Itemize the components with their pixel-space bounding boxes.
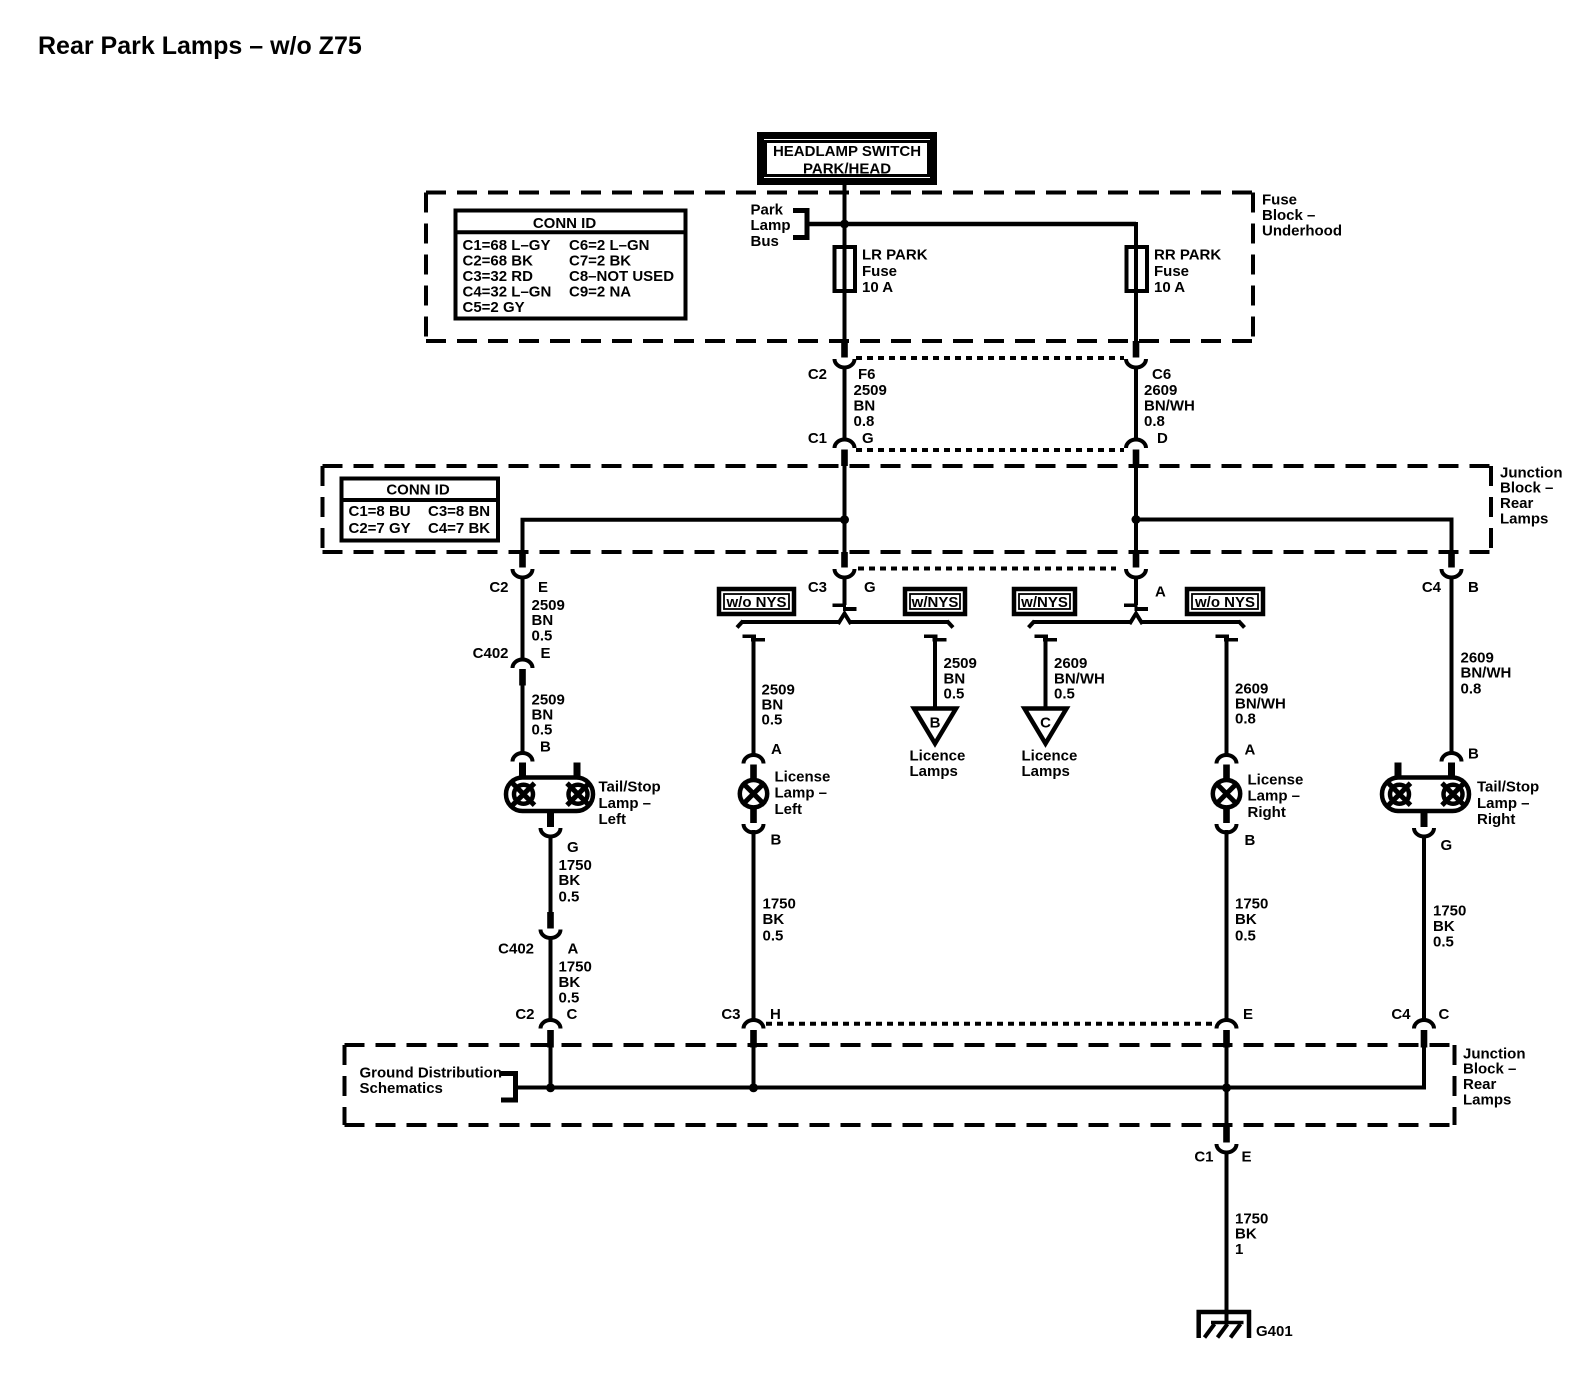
label Licence Lamps B [910,748,966,781]
node park lamp bus junction [840,220,849,229]
svg-text:Right: Right [1477,811,1515,828]
svg-text:10 A: 10 A [862,279,893,296]
connector C3 pin H ground block [744,1020,764,1048]
svg-text:1750: 1750 [1433,903,1466,920]
node ground bus center [749,1083,758,1092]
svg-text:Lamp –: Lamp – [1248,788,1301,805]
svg-text:BN/WH: BN/WH [1461,664,1512,681]
svg-text:RR PARK: RR PARK [1154,247,1221,264]
svg-text:C2: C2 [808,366,827,383]
wire label 2509 BN 0.5 tail left upper [532,597,565,644]
svg-text:0.5: 0.5 [559,990,580,1007]
wire 1750 BK 0.5 tail left upper [549,835,553,913]
label Park Lamp Bus [751,202,791,250]
svg-text:0.8: 0.8 [1235,711,1256,728]
svg-text:Block –: Block – [1463,1061,1516,1078]
svg-text:w/o NYS: w/o NYS [1194,594,1255,611]
wire to ground bus left [549,1046,553,1088]
svg-text:C2: C2 [489,579,508,596]
wire junction block to C2 exit [523,520,845,552]
wire 2509 BN 0.5 license left [752,638,756,755]
label Tail/Stop Lamp - Left [599,779,661,829]
svg-text:C4: C4 [1422,579,1442,596]
split break flag left [833,604,857,612]
svg-text:E: E [1243,1006,1253,1023]
svg-text:Lamps: Lamps [1500,511,1548,528]
svg-text:C2: C2 [515,1006,534,1023]
wire through ground block right [1225,1046,1229,1125]
wire C3 G to split [843,576,847,605]
svg-text:Fuse: Fuse [862,263,897,280]
svg-text:0.8: 0.8 [854,413,875,430]
wire ground bus [516,1086,1425,1090]
label Tail/Stop Lamp - Right [1477,779,1539,829]
connector C3 pin G exit [835,552,855,578]
option box w/NYS left [905,589,965,614]
svg-text:C: C [1439,1006,1450,1023]
svg-text:10 A: 10 A [1154,279,1185,296]
wire label 2509 BN 0.5 tail left lower [532,692,565,739]
svg-text:0.5: 0.5 [762,712,783,729]
option box w/o NYS left [719,589,794,614]
label Licence Lamps C [1022,748,1078,781]
svg-text:HEADLAMP SWITCH: HEADLAMP SWITCH [773,143,921,160]
svg-text:0.5: 0.5 [1054,685,1075,702]
svg-text:0.5: 0.5 [1235,928,1256,945]
bracket ground distribution [501,1074,516,1101]
svg-text:0.5: 0.5 [532,721,553,738]
branch flag w/o NYS left [743,635,766,642]
svg-text:C6: C6 [1152,366,1171,383]
svg-text:2509: 2509 [854,382,887,399]
svg-text:0.5: 0.5 [559,888,580,905]
svg-text:C3: C3 [721,1006,740,1023]
wire park lamp bus [807,222,1136,227]
connector pin A exit [1126,552,1146,578]
branch flag w/o NYS right [1216,635,1239,642]
svg-text:Park: Park [751,202,784,219]
svg-text:A: A [1155,584,1166,601]
svg-text:2609: 2609 [1144,382,1177,399]
lamp Tail/Stop Lamp - Right [1382,753,1469,837]
wire to ground bus right [1422,1046,1426,1090]
svg-text:BK: BK [559,974,581,991]
label License Lamp - Left [775,769,831,818]
wire junction block to C4 exit [1136,520,1452,553]
split zigzag left [838,614,851,625]
svg-text:Ground Distribution: Ground Distribution [360,1064,502,1081]
block Fuse Block - Underhood [426,193,1253,342]
svg-text:Rear Park Lamps – w/o Z75: Rear Park Lamps – w/o Z75 [38,32,362,60]
wire 1750 BK 0.5 license right [1225,830,1229,1020]
svg-text:Schematics: Schematics [360,1080,443,1097]
svg-text:B: B [1245,832,1256,849]
node ground bus right [1222,1083,1231,1092]
wire 2609 BN/WH 0.8 license right [1225,638,1229,755]
svg-text:w/NYS: w/NYS [1020,594,1068,611]
svg-text:C2=7 GY: C2=7 GY [349,520,411,537]
svg-text:B: B [1468,746,1479,763]
svg-text:Lamp: Lamp [751,217,791,234]
wire 2509 BN 0.8 left segment [843,366,847,440]
svg-text:G: G [1441,837,1453,854]
svg-text:w/o NYS: w/o NYS [725,594,786,611]
wire label 1750 BK 0.5 tail left lower [559,959,592,1007]
connector C1 pin G junction block left [835,440,855,467]
option box w/o NYS right [1187,589,1263,614]
node ground bus left [546,1083,555,1092]
svg-text:D: D [1157,430,1168,447]
svg-text:Fuse: Fuse [1154,263,1189,280]
svg-text:Block –: Block – [1500,480,1553,497]
split bus right [1029,621,1245,628]
svg-text:Right: Right [1248,804,1286,821]
svg-text:G: G [862,430,874,447]
connector pin D junction block right [1126,440,1146,467]
ground G401 [1197,1310,1252,1338]
wire label 2509 BN 0.5 license left [762,682,795,729]
label Junction Block - Rear Lamps lower [1463,1045,1526,1108]
svg-text:C1: C1 [808,430,827,447]
terminal C Licence Lamps [1025,709,1067,744]
svg-text:LR PARK: LR PARK [862,247,928,264]
svg-text:Underhood: Underhood [1262,222,1342,239]
svg-text:B: B [540,739,551,756]
svg-text:Lamps: Lamps [910,763,958,780]
svg-text:C3=8 BN: C3=8 BN [428,503,490,520]
svg-text:C2=68 BK: C2=68 BK [463,253,534,270]
svg-text:B: B [1468,579,1479,596]
svg-text:Rear: Rear [1463,1076,1497,1093]
wire label 1750 BK 0.5 tail left upper [559,857,592,906]
svg-text:C1=68 L–GY: C1=68 L–GY [463,237,551,254]
connector C2 pin E exit [513,552,533,578]
svg-text:F6: F6 [858,366,876,383]
switch S1 HEADLAMP SWITCH PARK/HEAD [761,136,934,182]
wire label 2509 BN 0.5 terminal B [944,655,977,702]
svg-text:B: B [930,715,941,732]
svg-text:A: A [568,940,579,957]
connector C4 pin B exit [1442,552,1462,578]
node junction block right [1132,515,1141,524]
svg-text:C1: C1 [1194,1149,1213,1166]
wire label 2609 BN/WH 0.8 tail right [1461,650,1512,698]
svg-text:C8–NOT USED: C8–NOT USED [569,268,674,285]
label License Lamp - Right [1248,772,1304,821]
wire switch to fuse block [843,184,847,357]
svg-text:Tail/Stop: Tail/Stop [1477,779,1539,796]
svg-text:Rear: Rear [1500,495,1534,512]
branch flag w/NYS right [1035,635,1058,642]
svg-text:Left: Left [775,801,803,818]
svg-text:BK: BK [1235,911,1257,928]
wire label 1750 BK 0.5 license left [763,896,796,945]
svg-text:CONN ID: CONN ID [386,482,450,499]
connector C4 pin C ground block [1414,1020,1434,1048]
svg-text:G: G [567,839,579,856]
wire 2609 BN/WH 0.8 tail right [1450,576,1454,753]
label Ground Distribution Schematics [360,1064,502,1097]
block Junction Block - Rear Lamps lower [345,1045,1455,1125]
wire A to split [1134,576,1138,605]
connector line dotted H to E [766,1022,1219,1026]
svg-text:C6=2 L–GN: C6=2 L–GN [569,237,649,254]
bracket park lamp bus [793,211,807,238]
wire to ground bus center-left [752,1046,756,1088]
svg-text:C7=2 BK: C7=2 BK [569,253,631,270]
svg-text:C402: C402 [498,940,534,957]
svg-text:0.5: 0.5 [1433,933,1454,950]
connector line dotted top [856,356,1124,360]
svg-text:E: E [1242,1149,1252,1166]
wire bus to RR fuse [1134,222,1138,357]
lamp License Lamp - Right [1213,755,1240,833]
connector C2 pin F6 fuse block left [835,341,855,368]
table CONN ID fuse block [456,211,686,319]
svg-text:C: C [1040,715,1051,732]
svg-text:Lamp –: Lamp – [775,785,828,802]
svg-text:BN: BN [854,398,876,415]
svg-text:C4: C4 [1391,1006,1411,1023]
svg-text:BN/WH: BN/WH [1144,398,1195,415]
svg-text:License: License [1248,772,1304,789]
fuse F_LR LR PARK 10A [835,247,928,297]
svg-text:Lamps: Lamps [1463,1092,1511,1109]
label Fuse Block - Underhood [1262,192,1342,240]
svg-text:C4=7 BK: C4=7 BK [428,520,490,537]
svg-text:E: E [541,645,551,662]
node junction block left [840,515,849,524]
svg-text:BK: BK [559,872,581,889]
wire 2509 BN 0.5 tail left upper [521,576,525,660]
connector C402 pin E [513,660,533,686]
lamp License Lamp - Left [740,755,767,833]
svg-text:Lamps: Lamps [1022,763,1070,780]
wire label 2509 BN 0.8 [854,382,887,430]
terminal B Licence Lamps [914,709,956,744]
svg-text:0.8: 0.8 [1144,413,1165,430]
svg-text:Lamp –: Lamp – [1477,795,1530,812]
svg-text:C5=2 GY: C5=2 GY [463,299,525,316]
split zigzag right [1130,614,1143,625]
wire 1750 BK 0.5 license left [752,830,756,1020]
split break flag right [1124,604,1148,612]
svg-text:Bus: Bus [751,233,779,250]
svg-text:Licence: Licence [1022,748,1078,765]
connector C402 pin A [541,912,561,938]
wire label 2609 BN/WH 0.5 terminal C [1054,655,1105,702]
wire 2609 BN/WH 0.8 right segment [1134,366,1138,440]
wire 1750 BK 0.5 tail left lower [549,937,553,1020]
svg-text:1: 1 [1235,1241,1243,1258]
svg-text:C1=8 BU: C1=8 BU [349,503,411,520]
table CONN ID junction block [342,479,499,541]
svg-text:G: G [864,579,876,596]
wire main left through junction block [843,466,847,552]
svg-text:A: A [771,741,782,758]
wire 2509 BN 0.5 to terminal B [933,638,937,709]
svg-text:C4=32 L–GN: C4=32 L–GN [463,284,552,301]
svg-text:C: C [567,1006,578,1023]
svg-text:CONN ID: CONN ID [533,215,597,232]
connector line dotted bottom [856,448,1124,452]
wire main right through junction block [1134,466,1138,552]
branch flag w/NYS left [924,635,947,642]
wire label 1750 BK 0.5 tail right [1433,903,1466,951]
svg-text:License: License [775,769,831,786]
svg-text:C3=32 RD: C3=32 RD [463,268,534,285]
wire label 2609 BN/WH 0.8 [1144,382,1195,430]
svg-text:PARK/HEAD: PARK/HEAD [803,161,891,178]
wire label 2609 BN/WH 0.8 license right [1235,680,1286,727]
wire 1750 BK 1 to ground [1225,1151,1229,1312]
svg-text:0.5: 0.5 [532,627,553,644]
label Junction Block - Rear Lamps upper [1500,464,1563,527]
wire label 1750 BK 1 [1235,1211,1268,1258]
svg-text:C9=2 NA: C9=2 NA [569,284,631,301]
svg-text:H: H [770,1006,781,1023]
svg-text:A: A [1245,742,1256,759]
svg-text:G401: G401 [1256,1323,1293,1340]
fuse F_RR RR PARK 10A [1127,247,1222,297]
svg-text:C402: C402 [473,645,509,662]
svg-text:0.8: 0.8 [1461,680,1482,697]
svg-text:C3: C3 [808,579,827,596]
svg-text:w/NYS: w/NYS [911,594,959,611]
svg-text:0.5: 0.5 [944,685,965,702]
svg-text:0.5: 0.5 [763,928,784,945]
option box w/NYS right [1014,589,1075,614]
svg-text:Licence: Licence [910,748,966,765]
svg-text:BK: BK [763,911,785,928]
block Junction Block - Rear Lamps upper [323,466,1492,552]
wire 2609 BN/WH 0.5 to terminal C [1044,638,1048,709]
connector C2 pin C ground block [541,1020,561,1048]
svg-text:Left: Left [599,811,627,828]
split bus left [737,621,953,628]
svg-text:B: B [771,832,782,849]
wire 1750 BK 0.5 tail right [1422,835,1426,1020]
connector C6 fuse block right [1126,341,1146,368]
svg-text:Lamp –: Lamp – [599,795,652,812]
svg-text:Tail/Stop: Tail/Stop [599,779,661,796]
connector line dotted G to A [858,567,1116,571]
connector C1 pin E ground block exit [1217,1125,1237,1153]
wire label 1750 BK 0.5 license right [1235,896,1268,945]
lamp Tail/Stop Lamp - Left [506,753,593,837]
wire 2509 BN 0.5 tail left lower [521,684,525,753]
connector pin E ground block [1217,1020,1237,1048]
svg-text:E: E [538,579,548,596]
